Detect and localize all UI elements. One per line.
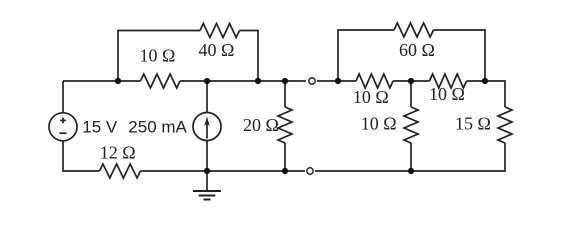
resistor 10 ohm (right horizontal 1) — [356, 74, 393, 88]
current source 250 mA — [193, 113, 221, 141]
resistor 10 ohm (vertical) — [404, 107, 418, 143]
20 ohm branch top wire — [284, 81, 286, 107]
wire main top run (middle) — [180, 80, 306, 82]
svg-text:10 Ω: 10 Ω — [429, 84, 465, 104]
wire left vertical top — [62, 81, 64, 113]
60 ohm top loop left riser — [338, 30, 394, 81]
wire main top run (left) — [63, 80, 141, 82]
resistor 20 ohm (vertical) — [278, 107, 292, 143]
current source branch top wire — [206, 81, 208, 113]
svg-text:10 Ω: 10 Ω — [361, 114, 397, 134]
junction dot node i — [282, 168, 288, 174]
voltage source 15 V — [49, 113, 77, 141]
40 ohm top loop right riser — [240, 31, 259, 82]
resistor 12 ohm — [100, 164, 141, 178]
ground symbol — [193, 171, 221, 200]
wire right top to corner — [467, 81, 506, 107]
wire from top port to 60 ohm node — [317, 80, 356, 82]
wire between right 10 ohm resistors — [393, 80, 430, 82]
wire bottom right run — [315, 143, 505, 171]
svg-text:20 Ω: 20 Ω — [243, 115, 279, 135]
junction dot node h — [204, 168, 210, 174]
60 ohm top loop right riser — [434, 30, 486, 81]
junction dot node d — [282, 78, 288, 84]
20 ohm branch bottom wire — [284, 143, 286, 171]
svg-text:15 V: 15 V — [82, 118, 118, 137]
junction dot node c — [255, 78, 261, 84]
junction dot node f — [408, 78, 414, 84]
svg-text:60 Ω: 60 Ω — [399, 40, 435, 60]
svg-text:15 Ω: 15 Ω — [455, 114, 491, 134]
junction dot node j — [408, 168, 414, 174]
resistor 40 ohm — [200, 24, 240, 38]
junction dot node g — [482, 78, 488, 84]
junction dot node a — [115, 78, 121, 84]
resistor 60 ohm — [394, 23, 434, 37]
10 ohm vertical branch top wire — [410, 81, 412, 107]
junction dot node b — [204, 78, 210, 84]
40 ohm top loop left riser — [118, 31, 200, 82]
svg-text:40 Ω: 40 Ω — [199, 40, 235, 60]
open terminal bottom — [307, 168, 313, 174]
10 ohm vertical branch bottom wire — [410, 143, 412, 171]
junction dot node e — [335, 78, 341, 84]
svg-text:10 Ω: 10 Ω — [139, 45, 175, 65]
resistor 10 ohm (left horizontal) — [141, 74, 181, 88]
svg-text:10 Ω: 10 Ω — [353, 87, 389, 107]
svg-text:12 Ω: 12 Ω — [100, 142, 136, 162]
svg-text:250 mA: 250 mA — [128, 118, 187, 137]
resistor 10 ohm (right horizontal 2) — [430, 74, 467, 88]
open terminal top — [309, 78, 315, 84]
wire left vertical bottom — [63, 141, 100, 171]
current source branch bottom wire — [206, 141, 208, 172]
wire bottom left-middle — [141, 170, 306, 172]
resistor 15 ohm (vertical) — [498, 107, 512, 143]
